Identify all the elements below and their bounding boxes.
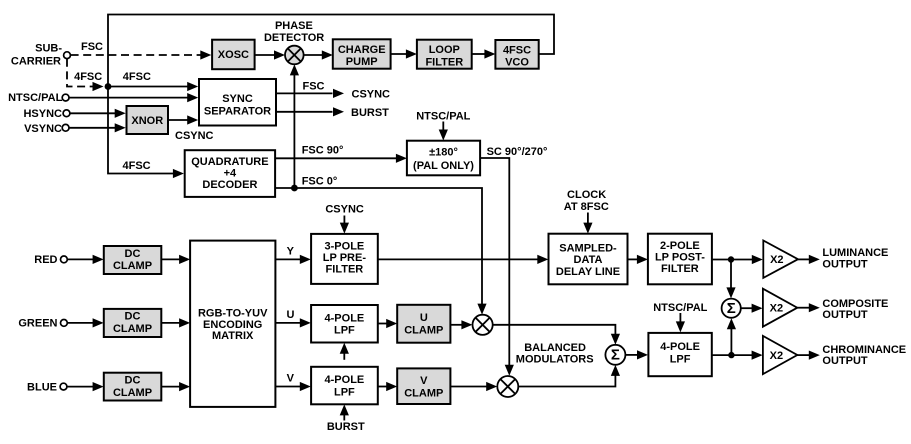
svg-text:FILTER: FILTER xyxy=(326,264,364,276)
wire FSC node to phase detector xyxy=(290,64,299,188)
svg-text:4-POLE: 4-POLE xyxy=(660,341,700,353)
block QUADRATURE DIVIDE-BY-4 DECODER xyxy=(185,150,275,197)
svg-text:FILTER: FILTER xyxy=(661,263,699,275)
block DC CLAMP (green) xyxy=(104,309,162,337)
svg-text:+4: +4 xyxy=(224,167,237,179)
svg-text:4FSC: 4FSC xyxy=(123,160,151,172)
block U CLAMP xyxy=(397,305,450,343)
svg-text:U: U xyxy=(287,309,295,321)
svg-text:LP PRE-: LP PRE- xyxy=(323,252,367,264)
wire clock into delay line xyxy=(583,213,592,234)
gate XNOR xyxy=(127,106,169,134)
svg-text:X2: X2 xyxy=(770,350,783,362)
wire XOSC to phase detector xyxy=(255,50,285,59)
svg-text:DC: DC xyxy=(125,248,141,260)
svg-text:DETECTOR: DETECTOR xyxy=(264,32,324,44)
block 4-POLE LPF (U) xyxy=(311,305,378,343)
svg-text:(PAL ONLY): (PAL ONLY) xyxy=(413,160,474,172)
node FSC 0 junction xyxy=(291,185,298,192)
wire green clamp to matrix xyxy=(161,318,190,327)
block 3-POLE LP PRE-FILTER xyxy=(311,234,378,284)
wire burst arrow into U LPF xyxy=(340,343,349,360)
block DC CLAMP (red) xyxy=(104,246,162,274)
wire 4FSC node to quadrature decoder xyxy=(108,87,184,179)
svg-text:X2: X2 xyxy=(770,303,783,315)
svg-text:NTSC/PAL: NTSC/PAL xyxy=(8,92,62,104)
svg-text:XNOR: XNOR xyxy=(131,115,163,127)
svg-text:MODULATORS: MODULATORS xyxy=(516,354,594,366)
terminal NTSC/PAL input xyxy=(8,92,69,104)
summer composite (sigma) xyxy=(722,299,741,318)
wire RED to DC clamp xyxy=(67,255,103,264)
svg-text:LP POST-: LP POST- xyxy=(655,251,705,263)
svg-text:FSC: FSC xyxy=(303,81,325,93)
terminal VSYNC input xyxy=(24,123,69,135)
svg-text:DC: DC xyxy=(125,311,141,323)
label FSC 90&#176; xyxy=(302,144,344,156)
terminal SUB-CARRIER input xyxy=(11,42,71,67)
svg-text:CLAMP: CLAMP xyxy=(113,387,152,399)
svg-text:SYNC: SYNC xyxy=(222,93,253,105)
node chrominance junction xyxy=(728,352,734,358)
svg-text:CLAMP: CLAMP xyxy=(113,323,152,335)
svg-text:SAMPLED-: SAMPLED- xyxy=(559,243,617,255)
svg-text:Σ: Σ xyxy=(727,300,736,317)
svg-text:SUB-: SUB- xyxy=(35,42,62,54)
wire HSYNC to XNOR xyxy=(70,109,126,118)
svg-text:DELAY LINE: DELAY LINE xyxy=(556,266,620,278)
svg-text:4-POLE: 4-POLE xyxy=(325,312,365,324)
wire luminance node to composite summer xyxy=(726,260,735,299)
svg-text:3-POLE: 3-POLE xyxy=(325,240,365,252)
svg-text:AT 8FSC: AT 8FSC xyxy=(564,201,609,213)
amplifier X2 (luminance) xyxy=(763,241,798,278)
svg-text:LPF: LPF xyxy=(334,387,355,399)
svg-text:CARRIER: CARRIER xyxy=(11,55,61,67)
wire U to 4-pole LPF xyxy=(275,318,310,327)
summer chroma (sigma) xyxy=(605,345,625,365)
wire loop filter to VCO xyxy=(472,49,496,58)
block 4-POLE LPF (V) xyxy=(311,367,378,405)
terminal BLUE input xyxy=(27,381,67,393)
wire charge pump to loop filter xyxy=(391,49,417,58)
svg-text:FSC 90°: FSC 90° xyxy=(302,144,344,156)
svg-text:DATA: DATA xyxy=(574,254,603,266)
svg-text:BURST: BURST xyxy=(327,421,365,433)
wire U modulator to chroma summer xyxy=(493,325,620,345)
block 4-POLE LPF (chroma) xyxy=(648,333,711,376)
svg-text:OUTPUT: OUTPUT xyxy=(822,309,868,321)
label PHASE DETECTOR xyxy=(264,20,324,44)
svg-text:CLOCK: CLOCK xyxy=(567,189,606,201)
label 4FSC (to sync separator) xyxy=(123,71,151,83)
label CLOCK AT 8FSC xyxy=(564,189,609,213)
wire V clamp to V modulator xyxy=(450,382,497,391)
terminal GREEN input xyxy=(18,318,67,330)
label BURST (LPF input) xyxy=(327,421,365,433)
terminal RED input xyxy=(34,254,67,266)
wire chroma node to composite summer xyxy=(727,318,736,355)
wire Y to pre-filter xyxy=(275,255,310,264)
block XOSC xyxy=(212,40,255,69)
svg-text:MATRIX: MATRIX xyxy=(212,330,254,342)
label BALANCED MODULATORS xyxy=(516,342,594,366)
label Y xyxy=(287,246,295,258)
block CHARGE PUMP xyxy=(333,39,391,68)
wire post-filter to luminance amp xyxy=(712,255,763,264)
wire FSC 0 to U modulator xyxy=(275,188,487,315)
svg-text:SEPARATOR: SEPARATOR xyxy=(204,105,271,117)
terminal HSYNC input xyxy=(23,108,69,120)
wire chrominance output xyxy=(797,351,820,360)
wire U clamp to U modulator xyxy=(450,320,472,329)
wire XNOR to sync separator xyxy=(168,115,198,124)
block SAMPLED-DATA DELAY LINE xyxy=(549,234,628,285)
wire V LPF to V clamp xyxy=(378,382,397,391)
svg-text:NTSC/PAL: NTSC/PAL xyxy=(416,111,470,123)
svg-text:VCO: VCO xyxy=(505,57,529,69)
wire V to 4-pole LPF xyxy=(275,382,310,391)
svg-text:Y: Y xyxy=(287,246,295,258)
mixer U1 phase detector xyxy=(285,46,304,65)
wire luminance output xyxy=(798,255,820,264)
svg-text:LPF: LPF xyxy=(334,325,355,337)
svg-text:XOSC: XOSC xyxy=(218,49,249,61)
wire U LPF to U clamp xyxy=(378,319,397,328)
label BURST (separator output) xyxy=(351,107,389,119)
svg-text:RGB-TO-YUV: RGB-TO-YUV xyxy=(198,308,268,320)
svg-text:V: V xyxy=(420,375,428,387)
label U xyxy=(287,309,295,321)
node 4FSC junction xyxy=(105,83,112,90)
wire VCO feedback loop (4FSC) xyxy=(108,15,554,87)
svg-text:VSYNC: VSYNC xyxy=(24,123,62,135)
block DC CLAMP (blue) xyxy=(104,373,162,401)
label CSYNC (pre-filter input) xyxy=(325,204,364,216)
wire composite summer to amp xyxy=(741,304,763,313)
wire NTSC/PAL into PAL switch xyxy=(439,122,448,141)
svg-text:LOOP: LOOP xyxy=(429,44,460,56)
wire red clamp to matrix xyxy=(161,255,190,264)
svg-text:FSC 0°: FSC 0° xyxy=(302,176,338,188)
wire chroma LPF to chrominance amp xyxy=(712,351,763,360)
svg-text:2-POLE: 2-POLE xyxy=(660,240,700,252)
wire 4FSC node to sync separator xyxy=(108,82,198,91)
block 4FSC VCO xyxy=(495,40,538,69)
amplifier X2 (chrominance) xyxy=(763,336,797,374)
svg-text:CLAMP: CLAMP xyxy=(113,260,152,272)
label NTSC/PAL (chroma LPF) xyxy=(653,302,707,314)
svg-text:HSYNC: HSYNC xyxy=(23,108,62,120)
svg-text:CSYNC: CSYNC xyxy=(352,88,391,100)
label FSC (phase detector feed) xyxy=(303,81,325,93)
svg-text:OUTPUT: OUTPUT xyxy=(822,259,868,271)
svg-text:LUMINANCE: LUMINANCE xyxy=(822,247,888,259)
svg-text:NTSC/PAL: NTSC/PAL xyxy=(653,302,707,314)
block SYNC SEPARATOR xyxy=(199,79,276,126)
wire blue clamp to matrix xyxy=(161,382,190,391)
wire BLUE to DC clamp xyxy=(67,382,104,391)
wire V modulator to chroma summer xyxy=(518,365,620,387)
wire FSC dashed: subcarrier to XOSC xyxy=(71,50,212,59)
label CHROMINANCE OUTPUT xyxy=(822,344,906,367)
label FSC 0&#176; xyxy=(302,176,338,188)
svg-text:Σ: Σ xyxy=(611,347,620,364)
wire VSYNC to XNOR xyxy=(69,123,126,132)
wire FSC 90 to PAL switch xyxy=(275,154,407,163)
svg-text:QUADRATURE: QUADRATURE xyxy=(191,156,268,168)
svg-text:SC 90°/270°: SC 90°/270° xyxy=(487,146,548,158)
block 2-POLE LP POST-FILTER xyxy=(648,234,712,285)
svg-text:BURST: BURST xyxy=(351,107,389,119)
wire delay line to post-filter xyxy=(628,255,648,264)
wire composite output xyxy=(797,303,820,312)
svg-text:4FSC: 4FSC xyxy=(123,71,151,83)
svg-text:4-POLE: 4-POLE xyxy=(325,374,365,386)
svg-text:OUTPUT: OUTPUT xyxy=(822,355,868,367)
block +/-180 (PAL ONLY) xyxy=(407,141,480,176)
mixer V modulator xyxy=(497,376,518,397)
svg-text:LPF: LPF xyxy=(670,354,691,366)
label LUMINANCE OUTPUT xyxy=(822,247,888,270)
svg-text:CSYNC: CSYNC xyxy=(325,204,364,216)
svg-text:CSYNC: CSYNC xyxy=(175,130,214,142)
amplifier X2 (composite) xyxy=(763,289,797,327)
svg-text:PUMP: PUMP xyxy=(346,56,378,68)
svg-text:DECODER: DECODER xyxy=(202,179,257,191)
wire 4FSC dashed: subcarrier to 4FSC node xyxy=(67,59,104,91)
wire chroma summer to 4-pole LPF xyxy=(625,350,648,359)
label 4FSC (dashed branch) xyxy=(74,71,102,83)
svg-text:BALANCED: BALANCED xyxy=(524,342,586,354)
svg-text:U: U xyxy=(420,312,428,324)
wire GREEN to DC clamp xyxy=(67,318,103,327)
label COMPOSITE OUTPUT xyxy=(822,298,888,321)
svg-text:BLUE: BLUE xyxy=(27,381,57,393)
label CSYNC (XNOR output) xyxy=(175,130,214,142)
wire BURST output xyxy=(276,107,344,116)
svg-text:4FSC: 4FSC xyxy=(74,71,102,83)
svg-text:RED: RED xyxy=(34,254,57,266)
svg-text:CHARGE: CHARGE xyxy=(338,44,386,56)
svg-text:FILTER: FILTER xyxy=(425,56,463,68)
svg-text:V: V xyxy=(287,373,295,385)
wire NTSC/PAL to sync separator xyxy=(69,93,198,102)
label 4FSC (to quadrature decoder) xyxy=(123,160,151,172)
block LOOP FILTER xyxy=(417,40,472,69)
svg-text:DC: DC xyxy=(125,375,141,387)
svg-text:X2: X2 xyxy=(770,254,783,266)
wire BURST into V LPF xyxy=(340,404,349,420)
svg-text:GREEN: GREEN xyxy=(18,318,57,330)
wire FSC output to CSYNC xyxy=(276,89,344,98)
svg-text:FSC: FSC xyxy=(81,41,103,53)
label NTSC/PAL (PAL switch) xyxy=(416,111,470,123)
svg-text:ENCODING: ENCODING xyxy=(203,319,262,331)
wire NTSC/PAL into chroma LPF xyxy=(676,313,685,332)
wire Y to delay line xyxy=(378,255,549,264)
label CSYNC (separator output) xyxy=(352,88,391,100)
wire phase detector to charge pump xyxy=(304,50,333,59)
node luminance junction xyxy=(728,256,734,262)
block RGB-TO-YUV ENCODING MATRIX xyxy=(190,241,275,407)
svg-text:4FSC: 4FSC xyxy=(503,44,531,56)
block V CLAMP xyxy=(397,368,450,404)
wire SC 90/270 to V modulator xyxy=(480,158,514,376)
svg-text:CLAMP: CLAMP xyxy=(404,325,443,337)
mixer U modulator xyxy=(473,315,493,335)
wire CSYNC into pre-filter xyxy=(340,216,349,234)
label SC 90&#176;/270&#176; xyxy=(487,146,548,158)
label FSC (subcarrier line) xyxy=(81,41,103,53)
svg-text:CLAMP: CLAMP xyxy=(404,387,443,399)
label V xyxy=(287,373,295,385)
svg-text:±180°: ±180° xyxy=(429,146,458,158)
svg-text:PHASE: PHASE xyxy=(275,20,313,32)
